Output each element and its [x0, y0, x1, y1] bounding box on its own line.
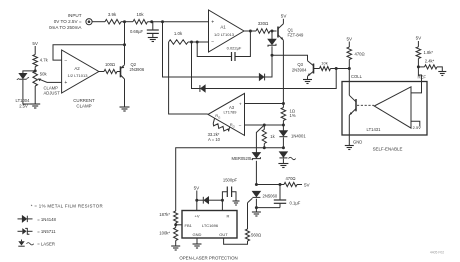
resistor R14 470Ω: [284, 176, 297, 186]
wire loop left leg: [197, 42, 231, 57]
svg-text:0.1µF: 0.1µF: [290, 201, 301, 206]
ground below SCR: [252, 212, 261, 216]
wire 5V to Q1 collector: [282, 19, 284, 24]
svg-text:187k*: 187k*: [159, 212, 170, 217]
svg-text:+: +: [64, 80, 67, 86]
ground below C1: [148, 38, 158, 42]
label REF pin: [418, 74, 427, 79]
svg-text:= 1N5711: = 1N5711: [37, 229, 56, 234]
svg-text:100Ω: 100Ω: [105, 62, 115, 67]
resistor R1 3.9k: [105, 12, 121, 24]
LT1431 comparator triangle: [374, 87, 411, 128]
svg-text:+: +: [211, 19, 214, 25]
svg-text:* = 1% METAL FILM RESISTOR: * = 1% METAL FILM RESISTOR: [31, 204, 103, 209]
svg-text:0.68µF: 0.68µF: [130, 29, 144, 34]
wire input to R1: [92, 21, 105, 23]
node Q junction: [195, 199, 198, 202]
wire A2 -in feedback: [53, 45, 125, 60]
resistor R15 560Ω: [245, 229, 261, 241]
svg-text:LTC1696: LTC1696: [202, 223, 219, 228]
LT1431 base dashed link: [357, 104, 374, 106]
wire A3 -in: [245, 124, 284, 126]
label SELF-ENABLE: [373, 146, 403, 151]
ground below Q3: [303, 80, 312, 84]
node H junction: [123, 43, 126, 46]
svg-text:2N3906: 2N3906: [130, 67, 145, 72]
wire R16 to FB1: [175, 223, 177, 225]
pot wiper arrow: [38, 79, 47, 83]
figure number: [430, 251, 444, 255]
svg-text:50k: 50k: [40, 71, 48, 76]
svg-text:1.8k*: 1.8k*: [424, 50, 434, 55]
svg-text:4.7k: 4.7k: [40, 57, 49, 62]
svg-text:−: −: [64, 58, 67, 64]
node loop junction 1: [190, 41, 193, 44]
svg-text:LT1431: LT1431: [367, 127, 382, 132]
svg-text:5V: 5V: [281, 14, 288, 19]
legend 1N4148 symbol: [18, 216, 57, 222]
wire A1 output: [244, 30, 256, 32]
svg-text:GND: GND: [353, 140, 362, 145]
power 5V at +V: [194, 185, 201, 190]
wire SCR cathode: [255, 199, 257, 208]
node P junction: [255, 206, 258, 209]
wire R4 to A1 -in: [188, 41, 197, 43]
transistor Q1 FZT-849: [278, 24, 304, 40]
svg-text:ADJUST: ADJUST: [44, 90, 61, 95]
wire node N to R14: [256, 184, 284, 186]
power 5V at R6: [346, 36, 353, 41]
svg-text:OPEN-LASER PROTECTION: OPEN-LASER PROTECTION: [179, 255, 237, 260]
ground below LT1431: [345, 146, 354, 150]
node G junction: [34, 69, 37, 72]
wire Q3 base: [314, 68, 320, 70]
wire Q1 emitter down: [282, 40, 284, 103]
label COLL pin: [351, 74, 363, 79]
wire D7 to SCR: [255, 161, 257, 185]
legend note metal film: [31, 204, 103, 209]
op-amp A2 1/2 LT1013: [62, 50, 99, 93]
wire SCR gate to R15: [247, 203, 249, 229]
wire R17 to ground: [175, 241, 177, 247]
svg-text:OUT: OUT: [219, 232, 228, 237]
node A junction: [123, 20, 126, 23]
diode D1 1N5711 (schottky): [268, 39, 276, 47]
wire laser to ground: [282, 159, 284, 164]
resistor R8 2.4k*: [418, 58, 437, 69]
wire FB1 pin: [176, 224, 182, 226]
wire D5 to node L: [282, 137, 284, 147]
wire 5V to R9: [34, 46, 36, 55]
wire GND pin LTC1696: [196, 238, 198, 244]
wire R2 to A1 +in: [148, 21, 209, 23]
node M junction: [263, 146, 266, 149]
svg-text:470Ω: 470Ω: [355, 52, 365, 57]
node B junction (filter cap): [150, 20, 153, 23]
in-amp A3 LT1789: [208, 93, 245, 135]
wire R7 to REF node: [417, 59, 419, 67]
node D junction: [271, 54, 274, 57]
ground right of R8: [438, 72, 446, 76]
svg-text:0.022µF: 0.022µF: [227, 46, 242, 51]
svg-text:CLAMP: CLAMP: [76, 104, 91, 109]
svg-text:3.9k: 3.9k: [108, 12, 117, 17]
ground below pot: [30, 104, 40, 108]
svg-text:10k: 10k: [321, 61, 327, 66]
diode D2 1N4148: [259, 74, 264, 81]
capacitor C3 0.1µF: [256, 185, 300, 208]
svg-text:MBR0520L: MBR0520L: [232, 156, 254, 161]
node J junction: [282, 124, 285, 127]
wire R8 to ground: [437, 67, 442, 72]
capacitor C4 1500pF: [222, 178, 237, 201]
power 5V at R9: [32, 41, 39, 46]
svg-text:5V: 5V: [346, 36, 353, 41]
svg-text:330Ω: 330Ω: [258, 21, 269, 26]
LT1431 ref input wires: [411, 82, 422, 127]
resistor R12 1Ω 1%: [281, 108, 296, 121]
node F junction: [348, 67, 351, 70]
svg-text:5V: 5V: [194, 185, 201, 190]
wire D2 to node D riser: [265, 55, 272, 77]
ground below LTC1696: [193, 244, 202, 248]
wire node F to COLL pin: [348, 69, 350, 82]
wire Q2 emitter up: [124, 22, 126, 65]
label LT1431: [367, 127, 382, 132]
wire wiper to A2 +in: [47, 81, 62, 83]
wire node K to D7: [256, 125, 264, 153]
node REF junction: [417, 65, 420, 68]
wire FB sense line: [176, 148, 284, 211]
svg-text:1N4001: 1N4001: [291, 134, 306, 139]
node O junction: [279, 183, 282, 186]
resistor R16 187k*: [159, 211, 178, 223]
svg-text:2.4k*: 2.4k*: [425, 58, 435, 63]
svg-text:5V: 5V: [416, 36, 423, 41]
IC U2 LT1431 box: [342, 82, 427, 136]
svg-text:COLL: COLL: [351, 74, 363, 79]
svg-text:A1: A1: [220, 25, 226, 30]
svg-text:2N5060: 2N5060: [263, 193, 278, 198]
svg-text:1/2 LT1013: 1/2 LT1013: [214, 32, 235, 37]
wire node D to Q3 collector: [272, 55, 308, 61]
diode D3 1N4148: [200, 85, 205, 92]
svg-text:560Ω: 560Ω: [251, 233, 261, 238]
wire R13 leads: [263, 125, 265, 148]
svg-text:1.0k: 1.0k: [174, 31, 183, 36]
wire Q2 collector down: [124, 79, 126, 107]
label GND pin: [353, 140, 362, 145]
svg-text:= LASER: = LASER: [37, 242, 55, 247]
svg-text:R: R: [227, 214, 230, 219]
zener D4 LT1004-2.5: [16, 73, 31, 108]
resistor R4 1.0k: [169, 31, 188, 44]
label INPUT: [49, 13, 82, 30]
resistor R2 10k: [133, 12, 148, 24]
wire A2 output: [99, 71, 104, 73]
resistor R13 1k: [262, 130, 275, 144]
op-amp A1 1/2 LT1013: [209, 10, 245, 52]
node INPUT terminal: [86, 19, 92, 25]
ground below laser: [278, 164, 288, 168]
transistor Q2 2N3906: [121, 62, 145, 79]
wire REF node to REF pin: [418, 67, 421, 82]
node K junction: [263, 124, 266, 127]
svg-text:+V: +V: [194, 214, 199, 219]
svg-text:1/2 LT1013: 1/2 LT1013: [68, 73, 89, 78]
resistor R11 100Ω: [104, 62, 117, 74]
wire node G to LT1004: [23, 71, 35, 73]
wire GND pin: [348, 135, 350, 146]
svg-text:4405 F02: 4405 F02: [430, 251, 444, 255]
legend 1N5711 symbol: [18, 228, 57, 234]
wire D1 to node D: [271, 46, 273, 55]
svg-text:= 1N4148: = 1N4148: [37, 217, 56, 222]
label CURRENT CLAMP: [73, 98, 95, 108]
svg-text:CURRENT: CURRENT: [73, 98, 95, 103]
node Q1 base junction: [271, 30, 274, 33]
node A1 output junction: [249, 30, 252, 33]
diode D5 1N4001: [279, 131, 306, 139]
resistor R9 4.7k: [33, 55, 49, 67]
svg-text:470Ω: 470Ω: [285, 176, 295, 181]
wire 5V to +V pin: [196, 191, 198, 211]
gain resistor RG 33.2k*: [208, 118, 230, 142]
wire loop right leg: [235, 31, 250, 57]
wire node J to D5: [282, 125, 284, 131]
wire node C down-right: [163, 22, 260, 77]
wire R5 to node E: [331, 68, 350, 70]
laser diode D6: [279, 152, 295, 160]
capacitor C1 0.68uF: [130, 22, 159, 38]
svg-text:SELF-ENABLE: SELF-ENABLE: [373, 146, 403, 151]
diode D8 1N4148: [197, 197, 223, 204]
svg-text:A = 10: A = 10: [208, 137, 221, 142]
node E junction: [335, 67, 338, 70]
power 5V at Q1: [281, 14, 288, 19]
diode D7 MBR0520L: [232, 153, 261, 161]
svg-text:0V TO 2.5V =: 0V TO 2.5V =: [54, 19, 82, 24]
resistor R17 100k*: [159, 225, 178, 241]
LTC1696 pin labels: [185, 214, 230, 238]
power 5V at R14: [297, 182, 311, 187]
svg-text:1500pF: 1500pF: [223, 178, 238, 183]
wire A3 +in: [245, 103, 284, 105]
wire R11 to Q2 base: [117, 71, 121, 73]
svg-text:FZT-849: FZT-849: [288, 33, 304, 38]
svg-text:FB1: FB1: [185, 223, 193, 228]
svg-text:0mA TO 250mA: 0mA TO 250mA: [49, 25, 82, 30]
wire R3 to Q1 base: [270, 30, 277, 32]
wire enable line: [205, 69, 336, 89]
resistor R3 330Ω: [256, 21, 270, 33]
resistor R6 470Ω: [347, 47, 365, 60]
node C junction (branch down): [161, 20, 164, 23]
svg-text:−: −: [211, 40, 214, 46]
wire A1 -in loop: [192, 41, 209, 43]
capacitor C2 0.022µF: [227, 46, 242, 62]
svg-text:−: −: [239, 124, 242, 129]
wire R6 to node F: [348, 60, 350, 69]
label RG pins: [215, 114, 235, 128]
wire SCR cathode to ground: [255, 208, 257, 212]
legend LASER symbol: [18, 240, 55, 247]
node R junction: [221, 199, 224, 202]
wire R15 to OUT pin: [224, 238, 248, 244]
resistor R5 10k: [320, 61, 331, 71]
wire pot to ground: [34, 86, 36, 104]
svg-text:100k*: 100k*: [159, 231, 170, 236]
wire LT1004 to ground rail: [23, 80, 35, 104]
wire 5V to R6: [348, 42, 350, 48]
wire D3 to A1 -in riser: [192, 42, 201, 89]
wire Q1 base to D1: [271, 31, 273, 39]
svg-text:GND: GND: [193, 232, 202, 237]
label CLAMP ADJUST: [44, 86, 61, 96]
wire R9 to node G: [34, 67, 36, 72]
ground below C4: [233, 201, 240, 205]
svg-text:2.5V: 2.5V: [413, 125, 422, 130]
power 5V at R7: [416, 36, 423, 41]
wire 5V to R7: [417, 41, 419, 47]
wire A3 out feedback riser: [169, 42, 208, 114]
wire R12 leads: [282, 104, 284, 126]
resistor R7 1.8k*: [416, 47, 433, 59]
potentiometer R10 50k: [33, 71, 48, 86]
svg-text:1%: 1%: [290, 113, 296, 118]
wire R1 to node A: [121, 21, 133, 23]
node loop junction 2: [196, 41, 199, 44]
wire R pin: [221, 200, 223, 210]
svg-text:10k: 10k: [136, 12, 144, 17]
svg-text:INPUT: INPUT: [68, 13, 82, 18]
ground below Q2: [120, 107, 130, 111]
svg-text:LT1789: LT1789: [224, 110, 237, 115]
transistor Q3 2N3904: [292, 61, 314, 77]
LT1431 internal transistor: [349, 82, 356, 136]
IC U3 LTC1696 box: [182, 211, 237, 239]
node S junction: [174, 223, 177, 226]
svg-text:A2: A2: [74, 66, 80, 71]
svg-text:2N3904: 2N3904: [292, 67, 307, 72]
svg-text:5V: 5V: [32, 41, 39, 46]
wire Q3 emitter: [307, 76, 309, 79]
label 2.5V internal: [413, 125, 422, 130]
ground below R17: [171, 246, 180, 250]
svg-text:5V: 5V: [304, 182, 311, 187]
svg-text:+: +: [239, 102, 242, 107]
node I junction: [282, 102, 285, 105]
node N junction: [255, 183, 258, 186]
SCR Q4 2N5060: [248, 191, 278, 203]
label OPEN-LASER PROTECTION: [179, 255, 237, 260]
node L junction: [282, 146, 285, 149]
